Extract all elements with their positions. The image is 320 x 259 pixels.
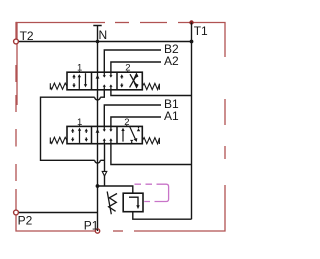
svg-text:A1: A1 [164,109,179,123]
wire T2 line [16,41,192,43]
valve V2 right spring [142,138,159,144]
valve V1 centre box blocked ports [104,72,111,90]
wire crossover hop upper [95,97,101,100]
valve V2 left spring [50,137,67,143]
valve V1 right spring [142,83,159,89]
svg-text:T2: T2 [20,29,34,43]
wire A2 [111,62,161,72]
port T2 ring [14,39,19,44]
relief valve RV1 pilot line (dashed) [135,184,169,201]
valve V1 left spring [50,83,67,89]
valve V1 body boxes [67,72,142,90]
wire valve1 return to tank [111,90,192,96]
wire A1 [111,117,161,126]
svg-text:P1: P1 [84,218,99,232]
port P1 ring [95,229,99,233]
wire open-center line valve1 to valve2 [97,90,99,127]
wire T1 vertical [191,23,193,220]
wire crossover hop lower [95,160,101,163]
valve V1 (upper spool section) [50,63,159,90]
wire relief inlet [98,186,133,193]
relief valve RV1 outlet [133,212,192,220]
port P2 ring [14,210,19,215]
svg-text:N: N [99,28,108,42]
valve V1 left box arrows [74,73,86,89]
valve V1 right box crossed arrows [122,74,136,87]
wire P2 line [16,212,98,214]
node P junction dot [96,184,100,188]
svg-text:A2: A2 [164,54,179,68]
valve V2 (lower spool section) [50,117,159,144]
valve V2 body boxes [67,126,142,143]
enclosure dashed red border [16,23,225,232]
relief valve RV1 adjustment arrow [107,192,111,215]
relief valve RV1 internal arrow [129,197,138,206]
valve V2 centre box blocked ports [104,126,111,143]
valve V2 left box arrows [73,130,87,143]
svg-text:T1: T1 [194,24,208,38]
wire N vertical [97,26,99,73]
node N-T2 junction [96,40,100,44]
valve V2 centre box open-centre arrow [97,126,99,143]
check flow arrow on supply drop [102,171,107,176]
port N terminal plug [93,25,101,27]
valve V1 centre box open-centre arrow [97,72,99,90]
wire valve2 supply drop [104,144,106,186]
valve V2 right box motor-spool arrows [122,131,124,142]
port T1 dot [189,20,193,24]
wire B2 [104,50,161,72]
relief valve RV1 body [123,193,143,212]
wire B1 [104,105,161,126]
wire open-center line valve2 to P junction [97,144,99,231]
relief valve RV1 spring [109,194,117,212]
svg-text:P2: P2 [18,213,33,227]
wire parallel supply loop [41,90,105,161]
node T1-T2 junction [190,40,194,44]
wire valve2 return to tank [111,144,192,165]
